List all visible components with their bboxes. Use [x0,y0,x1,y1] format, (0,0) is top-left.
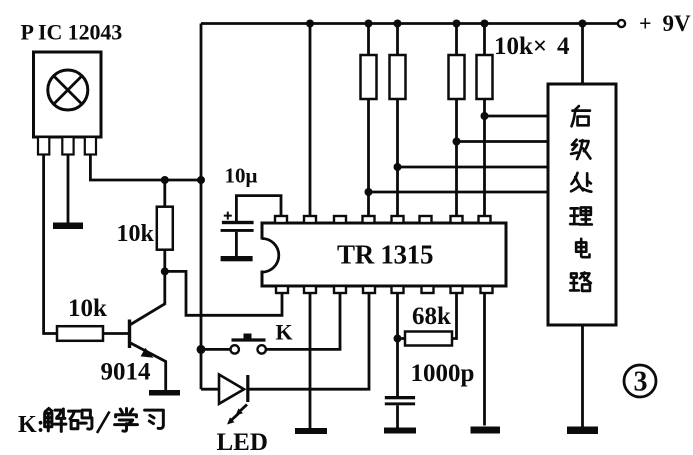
svg-text:10k: 10k [117,221,155,247]
IC pin 6 top [420,216,432,223]
resistor 68k [398,337,406,340]
capacitor 1000p plates [385,396,415,399]
receiver photodiode circle with cross [48,70,88,110]
svg-text:10μ: 10μ [225,164,258,188]
svg-text:K:: K: [18,412,45,438]
circled figure number 3 [624,365,656,397]
node rail junction box supply [579,20,587,28]
svg-text:9V: 9V [663,11,692,36]
IC pin 8 top [479,216,491,223]
receiver pin 2 [62,137,73,155]
wire IC pin5 bottom down [396,294,399,397]
receiver pin 1 [38,137,49,155]
capacitor 10u polarity plus [224,212,232,220]
svg-text:1000p: 1000p [411,360,475,387]
transistor Q 9014 [131,271,165,324]
IC pin 2 top [304,216,316,223]
svg-text:P IC 12043: P IC 12043 [21,20,123,45]
wire box bottom to ground [581,325,584,427]
ground under box [567,427,598,435]
cjk ma3 (code) [69,410,92,429]
svg-text:4: 4 [557,33,570,60]
wire K to IC pin3 bottom [266,294,340,350]
node rail junction pin2 [306,20,314,28]
wire 1000p to ground [396,405,399,427]
terminal +9V open circle [618,20,625,27]
node supply line junction [197,176,205,184]
wire R1 branch to box [369,191,549,194]
receiver module PIC12043 body [34,52,102,137]
post-processing block box [548,84,616,325]
wire box top to rail [581,24,584,85]
wire 10k bottom to IC pin1 [165,271,282,315]
svg-text:10k×: 10k× [494,33,547,60]
cjk ji2 (stage) [571,140,590,159]
IC pin 4 top [363,216,375,223]
node R4 branch [481,112,489,120]
wire 10u to ground [235,232,238,256]
IC pin 2 bottom [304,286,316,293]
cjk chu3 (processing) [571,173,591,192]
wire IC pin8 bottom to ground [483,294,486,426]
label slash [97,412,110,434]
resistor R1 10k (of 10k x4) [367,24,370,216]
IC pin 4 bottom [363,286,375,293]
svg-text:+: + [639,11,652,36]
IC pin 7 bottom [451,286,463,293]
cjk xi2 (practice) [145,410,164,428]
wire +9V top rail [201,22,618,25]
resistor R2 10k [396,24,399,216]
wire IC pin2 top to rail [309,24,312,216]
wire receiver pin2 to ground [67,155,70,224]
resistor 10k vertical [163,180,166,271]
ground under 1000p [384,428,416,434]
wire R2 branch to box [398,166,549,169]
resistor 10k horizontal (base) [57,326,103,341]
IC pin 5 top [392,216,404,223]
ground under IC pin8 [471,427,501,434]
IC notch [260,240,264,271]
node rail junction R2 [394,20,402,28]
switch K [201,348,230,351]
receiver pin 3 [85,137,96,155]
node K branch junction [197,345,206,354]
ground under 9014 emitter [149,390,180,396]
IC pin 5 bottom [392,286,404,293]
wire R4 branch to box [485,115,549,118]
node rail junction R3 [453,20,461,28]
IC pin 1 top [275,216,287,223]
IC pin 7 top [451,216,463,223]
node R1 branch [365,188,373,196]
node 68k junction [394,335,402,343]
node R2 branch [394,163,402,171]
node rail junction R4 [481,20,489,28]
node 10k bottom junction [161,267,169,275]
IC pin 1 bottom [276,286,288,293]
node pin3/R-top junction [161,176,169,184]
wire LED cathode to IC pin4 bottom [248,294,369,390]
IC pin 3 bottom [334,286,346,293]
svg-text:9014: 9014 [101,359,152,386]
IC pin 3 top [334,216,346,223]
ground under 10u [221,256,253,261]
svg-text:K: K [276,320,293,345]
LED diode [201,388,219,391]
node rail junction R1 [365,20,373,28]
IC pin 6 bottom [422,286,434,293]
wire receiver pin3 to supply node [90,155,201,181]
svg-text:TR 1315: TR 1315 [337,240,433,270]
svg-text:3: 3 [634,367,648,398]
cjk hou4 (post) [572,106,590,126]
cjk li3 (manage) [570,207,592,224]
resistor R4 10k [483,24,486,216]
cjk lu4 (circuit) [570,272,591,290]
ground under IC pin2 [295,428,327,434]
capacitor 10u wire to IC pin1 top [236,196,281,221]
cjk jie3 (decode) [45,409,66,432]
cjk dian4 (electric) [576,239,589,257]
IC pin 8 bottom [481,286,493,293]
IC TR1315 body [262,223,506,286]
wire R3 branch to box [457,140,549,143]
wire IC pin2 bottom to ground [309,294,312,429]
resistor R3 10k [455,24,458,216]
ground under receiver pin2 [53,223,83,230]
svg-text:68k: 68k [412,303,451,330]
cjk xue2 (learn) [115,409,138,432]
wire left vertical drop from +9V rail [200,24,203,390]
svg-text:LED: LED [217,429,268,455]
wire receiver pin1 down-left [44,155,57,334]
LED emission arrows [240,405,248,412]
capacitor 10u plates [222,221,254,224]
node R3 branch [453,138,461,146]
svg-text:10k: 10k [68,295,107,322]
